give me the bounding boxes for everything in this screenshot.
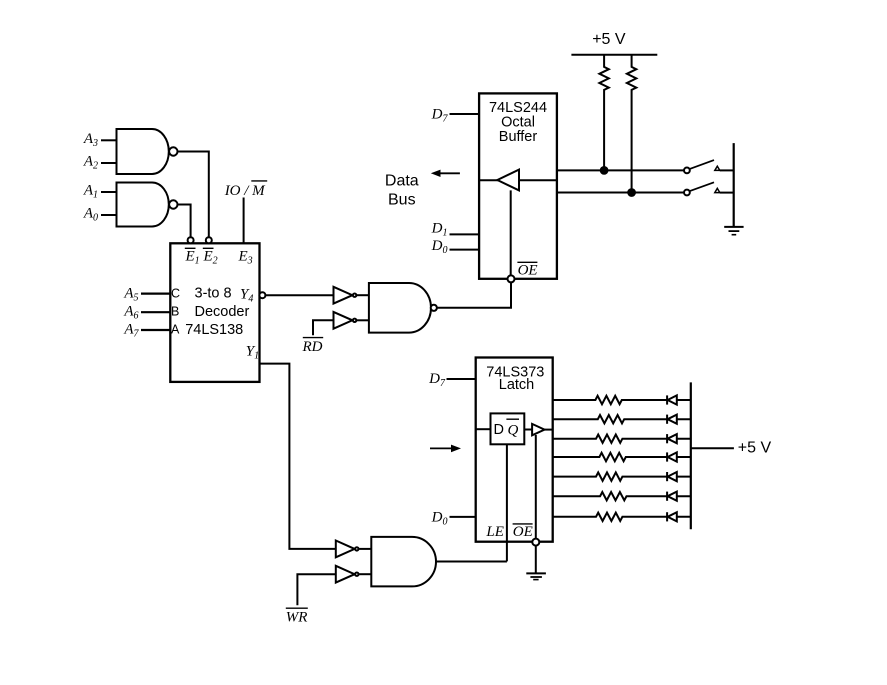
wire U2 OE internal (510, 190, 512, 275)
wire A7 input (141, 329, 170, 331)
wire A0 input stub (101, 214, 117, 216)
wire G1 output to E2bar bubble (178, 152, 209, 238)
svg-text:D: D (494, 422, 504, 438)
bubble G1 output (169, 147, 177, 155)
resistor R2 pullup (627, 55, 636, 193)
svg-text:Q: Q (508, 422, 519, 438)
row 7 resistor+diode (553, 512, 691, 521)
svg-text:C: C (171, 286, 180, 300)
row 6 resistor+diode (553, 492, 691, 501)
inverter I2 (334, 312, 353, 329)
bubble U2 OE (508, 275, 515, 282)
wire U2 row2 to switch S2 (557, 192, 684, 194)
wire A3 input stub (101, 139, 117, 141)
bubble G3 output (431, 305, 437, 311)
wire WR to I4 (297, 574, 335, 605)
NAND gate G3 (369, 283, 431, 333)
svg-text:A: A (171, 323, 180, 337)
bubble I4 (355, 573, 358, 576)
wire I3 to G4 (359, 548, 371, 550)
switch S1 (684, 168, 690, 174)
wire A2 input stub (101, 162, 117, 164)
wire U2 row1 to switch S1 (557, 169, 684, 171)
wire I1 to NAND G3 (357, 294, 369, 296)
wire I4 to G4 (359, 573, 371, 575)
wire D0 input U3 (450, 516, 476, 518)
wire E3 from IO/M (243, 198, 245, 244)
wire D7 input U3 (447, 378, 476, 380)
ground GND2 (526, 572, 546, 574)
row 3 resistor+diode (553, 434, 691, 443)
wire Q to buffer (524, 429, 532, 431)
LED bus vertical (690, 382, 692, 529)
wire G4 output to LE (436, 561, 507, 563)
svg-text:Decoder: Decoder (195, 304, 250, 320)
node junction row2/R2 (628, 189, 635, 196)
svg-text:WR: WR (286, 610, 308, 626)
AND gate G4 (371, 537, 436, 587)
buffer triangle U2 (497, 170, 519, 191)
svg-text:OE: OE (513, 524, 533, 540)
svg-text:IO / M: IO / M (224, 183, 266, 199)
svg-text:3-to 8: 3-to 8 (195, 286, 232, 302)
wire D7 input U2 (450, 113, 480, 115)
svg-text:OE: OE (518, 263, 538, 279)
row 1 resistor+diode (553, 395, 691, 404)
inverter I3 (336, 541, 355, 558)
wire D0 input U2 (450, 249, 480, 251)
wire switch bus vertical (733, 143, 735, 227)
bubble I3 (355, 547, 358, 550)
wire Y4 to inverter I1 (265, 294, 333, 296)
svg-text:RD: RD (302, 339, 323, 355)
node junction row1/R1 (601, 167, 608, 174)
svg-text:Latch: Latch (499, 377, 534, 393)
row 5 resistor+diode (553, 472, 691, 481)
wire Y1 to inverter I3 (260, 364, 336, 549)
switch S2 (684, 190, 690, 196)
wire +5V stub right (691, 447, 734, 449)
bubble Y4 output (259, 292, 265, 298)
wire A6 input (141, 311, 170, 313)
bubble I2 (353, 319, 356, 322)
wire RD to I2 (313, 320, 334, 335)
resistor R1 pullup (599, 55, 608, 171)
svg-text:B: B (171, 305, 179, 319)
wire G2 output to E1bar bubble (178, 205, 191, 238)
wire A1 input stub (101, 191, 117, 193)
latch inner cell box (491, 413, 525, 444)
ground GND1 (724, 226, 743, 228)
arrow into latch (430, 447, 452, 449)
wire to D of cell (476, 428, 491, 430)
wire U2 internal divider (479, 179, 557, 181)
svg-text:74LS138: 74LS138 (185, 322, 243, 338)
bubble E1bar (188, 237, 194, 243)
wire OE internal U3 (535, 435, 537, 539)
NAND gate G2 (A1,A0) (117, 183, 169, 227)
row 4 resistor+diode (553, 452, 691, 461)
arrow Data Bus (440, 172, 460, 174)
wire buffer to edge (545, 429, 553, 431)
wire LE internal/external (506, 444, 508, 561)
inverter I4 (336, 566, 355, 583)
bubble I1 (353, 294, 356, 297)
bubble G2 output (169, 200, 177, 208)
NAND gate G1 (A3,A2) (117, 129, 169, 174)
inverter I1 (334, 287, 353, 304)
wire I2 to NAND G3 (357, 319, 369, 321)
buffer triangle U3 (532, 424, 544, 435)
buffer U2 74LS244 box (479, 93, 557, 278)
latch U3 74LS373 box (476, 358, 553, 542)
decoder U1 74LS138 box (170, 243, 259, 382)
wire OE bubble to ground (535, 546, 537, 574)
wire G3 output to OE of U2 (437, 282, 511, 307)
svg-text:Data: Data (385, 172, 419, 189)
bubble E2bar (206, 237, 212, 243)
svg-text:Buffer: Buffer (499, 129, 538, 145)
svg-text:+5 V: +5 V (592, 31, 626, 48)
svg-text:+5 V: +5 V (738, 439, 772, 456)
svg-text:Bus: Bus (388, 192, 416, 209)
svg-text:LE: LE (485, 524, 504, 540)
row 2 resistor+diode (553, 415, 691, 424)
wire D1 input U2 (450, 233, 480, 235)
bubble U3 OE (532, 539, 539, 546)
+5V rail top (571, 54, 657, 56)
wire A5 input (141, 293, 170, 295)
